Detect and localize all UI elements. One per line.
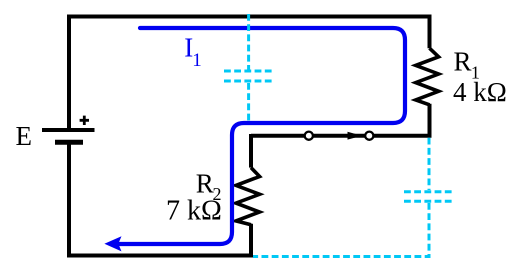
svg-text:4 kΩ: 4 kΩ xyxy=(453,77,507,107)
svg-text:7 kΩ: 7 kΩ xyxy=(166,196,222,227)
svg-text:E: E xyxy=(16,121,33,151)
svg-text:R: R xyxy=(454,47,472,77)
svg-text:R: R xyxy=(196,169,214,199)
svg-text:1: 1 xyxy=(192,50,202,71)
